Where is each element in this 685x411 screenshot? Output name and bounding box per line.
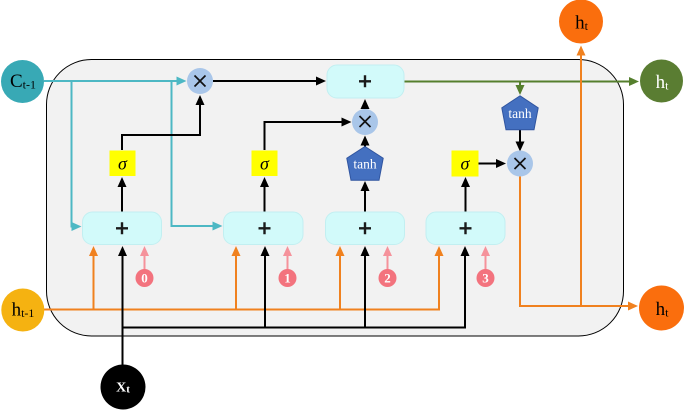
svg-text:tanh: tanh	[508, 106, 531, 121]
svg-text:3: 3	[482, 271, 489, 286]
svg-text:σ: σ	[118, 154, 128, 174]
svg-text:σ: σ	[461, 154, 471, 174]
svg-text:tanh: tanh	[353, 156, 376, 171]
svg-text:1: 1	[284, 271, 291, 286]
svg-text:0: 0	[141, 271, 148, 286]
svg-text:σ: σ	[260, 154, 270, 174]
svg-text:Xt: Xt	[116, 381, 130, 396]
svg-text:2: 2	[384, 271, 391, 286]
